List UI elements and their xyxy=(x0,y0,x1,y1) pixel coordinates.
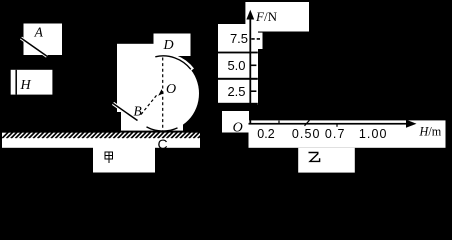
origin O box xyxy=(222,111,249,133)
svg-text:D: D xyxy=(162,38,173,53)
svg-text:B: B xyxy=(133,104,141,119)
label box A xyxy=(24,24,63,56)
tick 0.2 xyxy=(278,121,280,124)
circle bottom arc fragment xyxy=(147,127,178,131)
svg-text:7.5: 7.5 xyxy=(230,31,248,46)
svg-text:H: H xyxy=(20,78,32,93)
svg-text:0.2: 0.2 xyxy=(257,127,274,141)
circle top arc fragment xyxy=(155,56,191,69)
svg-text:A: A xyxy=(34,25,44,40)
dashed radius O-B with arrowhead xyxy=(141,94,158,115)
x axis arrowhead xyxy=(406,120,417,128)
ground hatching xyxy=(2,132,204,138)
halo of circle top arc xyxy=(155,56,192,70)
svg-text:H/m: H/m xyxy=(419,125,442,139)
gridline stub 2.5 xyxy=(251,90,256,92)
rope/line through box A xyxy=(21,38,47,56)
tab row 7.5 xyxy=(256,33,263,49)
svg-text:0.7: 0.7 xyxy=(325,127,346,141)
svg-text:1.00: 1.00 xyxy=(359,127,388,141)
x axis line xyxy=(249,123,408,125)
svg-text:C: C xyxy=(158,136,168,152)
x label strip xyxy=(249,120,446,147)
halo for rope segment near circle xyxy=(113,103,138,120)
svg-text:5.0: 5.0 xyxy=(227,58,245,73)
arrowhead near O xyxy=(158,89,164,96)
body blob rect (left of circle) xyxy=(117,44,164,112)
ground solid line xyxy=(2,131,200,133)
halo for rope segment near box A xyxy=(21,38,47,56)
y axis line xyxy=(249,17,251,124)
rope/tangent segment to B xyxy=(113,103,138,120)
svg-text:0.50: 0.50 xyxy=(292,127,321,141)
dashed diameter D-C xyxy=(162,58,164,131)
y label column xyxy=(218,24,258,105)
gridline stub 7.5 xyxy=(251,38,260,40)
y axis arrowhead xyxy=(246,10,254,20)
circle body (white fill) xyxy=(127,56,199,131)
tick 0.50 (slanted) xyxy=(305,120,310,126)
ground strip white xyxy=(2,133,200,148)
character yi (drawn strokes) xyxy=(309,153,320,162)
svg-text:O: O xyxy=(233,121,243,136)
label box D xyxy=(154,34,191,57)
character jia (drawn strokes) xyxy=(105,152,112,163)
vertical line in box H xyxy=(15,70,17,95)
tick 0.7 xyxy=(336,124,338,127)
label box jia xyxy=(93,148,155,173)
svg-text:F/N: F/N xyxy=(255,9,278,24)
F/N header box xyxy=(245,2,309,32)
svg-text:O: O xyxy=(166,82,176,97)
svg-text:2.5: 2.5 xyxy=(227,84,245,99)
white band under circle xyxy=(121,108,183,133)
label box yi xyxy=(298,148,355,173)
label box H xyxy=(11,70,53,95)
column cell borders xyxy=(218,52,258,54)
gridline stub 5.0 xyxy=(251,64,256,66)
